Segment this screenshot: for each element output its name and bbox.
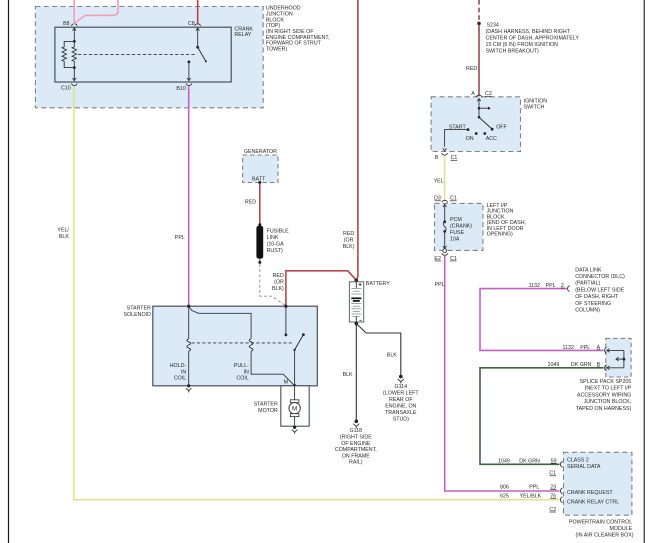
svg-text:PPL: PPL xyxy=(529,485,539,491)
svg-text:TRANSAXLE: TRANSAXLE xyxy=(385,410,417,416)
battery internal stem top xyxy=(355,280,357,288)
svg-text:DK GRN: DK GRN xyxy=(571,362,592,368)
svg-text:PULL-: PULL- xyxy=(234,363,249,369)
underhood junction block label xyxy=(266,6,330,53)
svg-text:FUSIBLE: FUSIBLE xyxy=(267,229,290,235)
svg-text:(RIGHT SIDE: (RIGHT SIDE xyxy=(340,435,372,441)
wire red (to battery) xyxy=(356,0,358,280)
solenoid case ground xyxy=(187,384,190,387)
svg-text:GENERATOR: GENERATOR xyxy=(244,149,277,155)
svg-text:OF DASH, RIGHT: OF DASH, RIGHT xyxy=(575,294,619,300)
YEL/BLK label xyxy=(57,227,69,240)
hold-in coil wire bottom xyxy=(188,351,190,386)
motor armature circle xyxy=(289,403,300,414)
svg-text:M: M xyxy=(284,380,288,386)
starter motor box xyxy=(281,386,309,426)
svg-text:806: 806 xyxy=(500,485,509,491)
splice pack note xyxy=(576,379,632,412)
svg-text:PPL: PPL xyxy=(435,282,445,288)
svg-text:(PARTIAL): (PARTIAL) xyxy=(575,281,600,287)
svg-text:(OR: (OR xyxy=(274,280,284,286)
battery internal stem bottom xyxy=(355,316,357,323)
B10 male pin arrow xyxy=(187,62,191,81)
svg-text:OFF: OFF xyxy=(496,124,507,130)
svg-text:BLK): BLK) xyxy=(272,286,284,292)
B8 female cup xyxy=(71,24,77,26)
solenoid dashed link xyxy=(192,342,293,344)
S234 note xyxy=(486,23,580,55)
svg-text:PPL: PPL xyxy=(546,283,556,289)
B male pin arrow xyxy=(443,148,447,151)
relay switch output contact xyxy=(188,61,191,64)
svg-text:SPLICE PACK SP205: SPLICE PACK SP205 xyxy=(580,379,632,385)
svg-text:SWITCH: SWITCH xyxy=(524,104,545,110)
left I/P junction block label xyxy=(487,203,526,238)
svg-text:10A: 10A xyxy=(450,236,460,242)
svg-text:PPL: PPL xyxy=(175,235,185,241)
wire black (battery to G114) xyxy=(356,324,401,377)
wire yellow (ignition B to fuse D3) xyxy=(444,156,446,202)
starter solenoid label xyxy=(124,306,152,318)
B female cup xyxy=(442,153,448,155)
svg-text:IN: IN xyxy=(181,369,186,375)
solenoid purple entry dot xyxy=(187,305,190,308)
svg-text:YEL: YEL xyxy=(434,178,444,184)
splice pack box xyxy=(606,338,631,377)
svg-text:REAR OF: REAR OF xyxy=(389,397,413,403)
svg-text:PPL: PPL xyxy=(580,345,590,351)
svg-text:OPENING): OPENING) xyxy=(487,232,513,238)
svg-text:BLK: BLK xyxy=(59,234,69,240)
D3 female cup xyxy=(442,200,448,202)
relay coil junction dot bottom xyxy=(73,66,76,69)
svg-text:STARTER: STARTER xyxy=(254,402,278,408)
svg-text:LINK: LINK xyxy=(267,235,279,241)
generator box xyxy=(243,155,278,183)
B10 female cup xyxy=(186,84,192,86)
svg-text:ACCESSORY WIRING: ACCESSORY WIRING xyxy=(577,392,631,398)
svg-text:M: M xyxy=(292,406,297,413)
underhood junction block (dashed box) xyxy=(35,7,263,108)
battery plus sign xyxy=(359,283,362,286)
relay coil branch (right zigzag) xyxy=(72,41,76,67)
B8 male pin arrow xyxy=(73,28,77,41)
svg-text:(10-GA: (10-GA xyxy=(267,242,285,248)
A male pin arrow xyxy=(477,99,480,118)
svg-text:COIL: COIL xyxy=(174,376,186,382)
svg-text:(CRANK): (CRANK) xyxy=(450,224,472,230)
svg-text:625: 625 xyxy=(500,493,509,499)
battery box xyxy=(349,282,363,322)
START contact dot xyxy=(467,128,470,131)
svg-text:POWERTRAIN CONTROL: POWERTRAIN CONTROL xyxy=(569,519,632,525)
svg-text:DK GRN: DK GRN xyxy=(519,458,540,464)
svg-text:15 CM (6 IN) FROM IGNITION: 15 CM (6 IN) FROM IGNITION xyxy=(486,42,559,48)
motor brush bottom xyxy=(290,414,299,417)
svg-text:1049: 1049 xyxy=(548,362,560,368)
motor wire top xyxy=(294,386,296,400)
PCM pin 76 cup xyxy=(560,497,562,503)
pull-in coil label xyxy=(234,363,249,382)
battery plates xyxy=(351,288,361,294)
C8 male pin arrow xyxy=(196,28,200,47)
svg-text:TAPED ON HARNESS): TAPED ON HARNESS) xyxy=(576,406,632,412)
wire from START contact to B xyxy=(445,130,468,147)
wire magenta (E2 to PCM 23) xyxy=(445,256,560,491)
motor ground xyxy=(293,426,296,429)
pull-in coil xyxy=(249,339,253,351)
svg-text:B8: B8 xyxy=(63,21,70,27)
wire red dashed (to S234) xyxy=(478,0,480,21)
battery negative dot xyxy=(355,322,359,326)
relay coil-to-switch dashed link xyxy=(78,53,196,55)
hold-in coil xyxy=(187,339,191,351)
SP205 pin B cup xyxy=(605,365,607,371)
relay switch pivot dot xyxy=(196,46,199,49)
PCM crank fuse element xyxy=(443,220,446,223)
relay switch blade xyxy=(198,47,206,61)
battery minus sign xyxy=(359,319,361,321)
fusible link label xyxy=(267,229,290,255)
svg-text:MOTOR: MOTOR xyxy=(258,408,278,414)
svg-text:(BELOW LEFT SIDE: (BELOW LEFT SIDE xyxy=(575,287,625,293)
wire red (fusible link junction to battery) xyxy=(286,271,356,306)
svg-text:ACC: ACC xyxy=(486,136,497,142)
svg-text:YEL/BLK: YEL/BLK xyxy=(520,493,542,499)
DLC pin 2 cup xyxy=(568,286,570,292)
svg-text:B: B xyxy=(435,155,439,161)
svg-text:(IN AIR CLEANER BOX): (IN AIR CLEANER BOX) xyxy=(576,532,634,538)
E2 holder circle xyxy=(443,249,447,253)
CLASS 2 SERIAL DATA label xyxy=(567,458,601,471)
svg-text:C10: C10 xyxy=(61,85,71,91)
branch to pull-in coil xyxy=(189,306,251,339)
battery terminal dot xyxy=(355,279,359,283)
splice S234 dot xyxy=(477,22,481,26)
svg-text:ON: ON xyxy=(466,136,474,142)
E2 male pin arrow xyxy=(443,231,447,248)
wire yellow (C10 to PCM 76) xyxy=(74,86,560,500)
hold-in coil wire top xyxy=(188,306,190,339)
solenoid red entry dot xyxy=(284,305,287,308)
svg-text:IN: IN xyxy=(243,369,248,375)
svg-text:A: A xyxy=(471,91,475,97)
SP205 internal bus xyxy=(623,350,625,367)
RED (OR BLK) label right xyxy=(343,231,355,250)
svg-text:RED: RED xyxy=(343,231,354,237)
page border line right xyxy=(643,0,645,543)
solenoid contact from red entry xyxy=(285,306,287,335)
relay coil resistor branch (left zigzag) xyxy=(62,41,74,67)
svg-text:RELAY: RELAY xyxy=(234,32,251,38)
ignition switch label xyxy=(524,98,548,110)
svg-text:DATA LINK: DATA LINK xyxy=(575,267,602,273)
wire red (to C8) xyxy=(197,0,199,25)
svg-text:SERIAL DATA: SERIAL DATA xyxy=(567,464,601,470)
D3 male pin arrow xyxy=(443,204,447,221)
svg-text:RED: RED xyxy=(273,273,284,279)
svg-text:STARTER: STARTER xyxy=(127,306,151,312)
svg-text:COMPARTMENT,: COMPARTMENT, xyxy=(335,447,377,453)
svg-text:TOWER): TOWER) xyxy=(266,47,288,53)
page border line xyxy=(8,0,10,543)
left I/P junction block (dashed box) xyxy=(435,203,484,250)
svg-text:CONNECTOR (DLC): CONNECTOR (DLC) xyxy=(575,274,625,280)
svg-text:FUSE: FUSE xyxy=(450,230,465,236)
ignition switch pivot dot xyxy=(478,116,481,119)
motor wire bottom xyxy=(294,417,296,428)
svg-text:BLK: BLK xyxy=(387,352,397,358)
svg-text:(OR: (OR xyxy=(344,238,354,244)
fusible link dashed tail xyxy=(260,264,285,306)
svg-text:CRANK REQUEST: CRANK REQUEST xyxy=(567,490,613,496)
starter solenoid box xyxy=(153,306,317,386)
svg-text:RED: RED xyxy=(466,66,477,72)
svg-text:C8: C8 xyxy=(188,21,195,27)
svg-text:1132: 1132 xyxy=(563,345,574,351)
solenoid switch blade xyxy=(302,333,305,336)
SP205 pin B arrow (points left) xyxy=(607,366,624,370)
SP205 stub arrow xyxy=(623,358,626,361)
svg-text:(DASH HARNESS, BEHIND RIGHT: (DASH HARNESS, BEHIND RIGHT xyxy=(486,29,571,35)
svg-text:G118: G118 xyxy=(350,428,363,434)
wire pink right (joins B8) xyxy=(75,0,118,23)
C8 female cup xyxy=(195,24,201,26)
RED (OR BLK) label left xyxy=(272,273,284,292)
ground G118 xyxy=(355,420,359,424)
svg-text:OF ENGINE: OF ENGINE xyxy=(341,441,371,447)
svg-text:ON FRAME: ON FRAME xyxy=(342,453,370,459)
powertrain control module box xyxy=(564,452,632,515)
motor brush top xyxy=(290,400,299,403)
data link connector note xyxy=(575,267,625,313)
ON contact dot xyxy=(475,132,478,135)
C10 female cup xyxy=(71,84,77,86)
svg-text:RED: RED xyxy=(245,200,256,206)
fuse label xyxy=(450,217,472,242)
wire red solid (S234 to ignition switch) xyxy=(478,25,480,96)
blade to M terminal xyxy=(294,350,296,386)
svg-text:BLK: BLK xyxy=(343,372,353,378)
svg-text:(NEXT TO LEFT I/P: (NEXT TO LEFT I/P xyxy=(585,386,632,392)
svg-text:1132: 1132 xyxy=(529,283,540,289)
C10 male pin arrow xyxy=(73,68,77,81)
wire pink left (to B8) xyxy=(73,0,75,25)
A female cup xyxy=(476,95,482,97)
wire magenta (B10 to starter solenoid) xyxy=(188,86,190,306)
svg-text:CENTER OF DASH, APPROXIMATELY: CENTER OF DASH, APPROXIMATELY xyxy=(486,36,580,42)
svg-text:1049: 1049 xyxy=(498,458,510,464)
wire green 1049 (SP205 B to PCM 59) xyxy=(480,368,604,465)
crank relay label xyxy=(234,27,253,39)
svg-text:JUNCTION BLOCK,: JUNCTION BLOCK, xyxy=(584,399,632,405)
wire purple 1132 (DLC branch) xyxy=(480,289,604,351)
ignition switch box xyxy=(431,97,520,152)
svg-text:BLK): BLK) xyxy=(343,244,355,250)
svg-text:COLUMN): COLUMN) xyxy=(575,308,600,314)
wire red (generator to fusible link) xyxy=(259,184,261,227)
svg-text:MODULE: MODULE xyxy=(610,526,633,532)
crank relay box xyxy=(55,27,231,82)
ACC contact dot xyxy=(483,132,486,135)
PCM pin 23 cup xyxy=(560,488,562,494)
svg-text:HOLD-: HOLD- xyxy=(170,363,187,369)
svg-text:OF STEERING: OF STEERING xyxy=(575,301,611,307)
svg-text:SOLENOID: SOLENOID xyxy=(124,312,152,318)
SP205 pin A arrow (points left) xyxy=(607,349,624,353)
svg-text:SWITCH BREAKOUT): SWITCH BREAKOUT) xyxy=(486,49,539,55)
wire black (battery to G118) xyxy=(355,324,357,422)
svg-text:B10: B10 xyxy=(176,86,185,92)
ground G114 xyxy=(399,375,403,379)
starter motor label xyxy=(254,402,278,414)
svg-text:G114: G114 xyxy=(395,384,408,390)
generator BATT terminal dot xyxy=(258,181,261,184)
svg-text:RUST): RUST) xyxy=(267,248,283,254)
E2 female cup xyxy=(442,253,448,255)
svg-text:STUD): STUD) xyxy=(393,417,409,423)
svg-text:YEL/: YEL/ xyxy=(57,227,69,233)
svg-text:PCM: PCM xyxy=(450,217,462,223)
hold-in coil label xyxy=(170,363,187,382)
svg-text:CRANK RELAY CTRL: CRANK RELAY CTRL xyxy=(567,499,619,505)
ignition switch blade to OFF xyxy=(479,117,492,129)
M terminal dot xyxy=(293,384,296,387)
fusible link bar xyxy=(258,223,261,226)
PCM pin 59 cup xyxy=(560,461,562,467)
svg-text:BATTERY: BATTERY xyxy=(366,281,390,287)
svg-text:ENGINE, ON: ENGINE, ON xyxy=(385,404,416,410)
svg-text:RAIL): RAIL) xyxy=(349,460,363,466)
svg-text:CLASS 2: CLASS 2 xyxy=(567,458,589,464)
svg-text:COIL: COIL xyxy=(236,376,248,382)
SP205 pin A cup xyxy=(605,348,607,354)
svg-text:(LOWER LEFT: (LOWER LEFT xyxy=(383,391,419,397)
ignition rotor dot with right arrow xyxy=(478,107,481,110)
svg-text:S234: S234 xyxy=(487,23,499,29)
OFF contact dot xyxy=(491,128,494,131)
pull-in coil wire to M terminal xyxy=(251,351,295,386)
powertrain control module label xyxy=(569,519,634,538)
relay coil junction dot top xyxy=(73,40,76,43)
